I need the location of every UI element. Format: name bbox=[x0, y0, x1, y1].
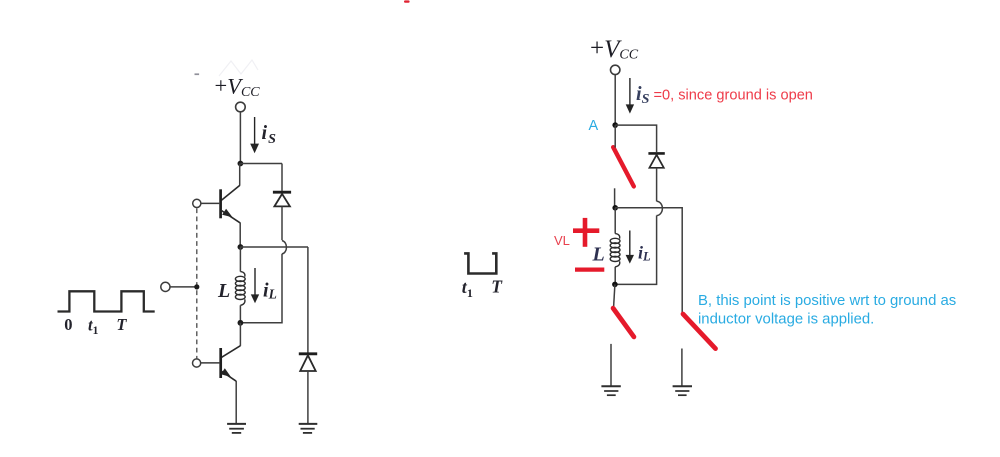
current arrow iL bbox=[251, 268, 259, 303]
node A bbox=[612, 122, 618, 128]
polarity minus bbox=[575, 268, 604, 272]
wire Q1 emitter down bbox=[239, 223, 241, 247]
svg-text:0: 0 bbox=[64, 315, 72, 334]
svg-text:inductor voltage is applied.: inductor voltage is applied. bbox=[698, 311, 874, 327]
wire D1 bottom to node B bbox=[240, 254, 282, 323]
switch S2 open bbox=[613, 308, 634, 337]
terminal input bbox=[161, 282, 170, 291]
terminal +VCC bbox=[236, 102, 246, 112]
current arrow iS bbox=[250, 117, 259, 153]
ground under S2 bbox=[601, 386, 620, 395]
wire node mid to far rail bbox=[615, 208, 682, 314]
wire rail below S1 bbox=[614, 188, 616, 208]
svg-text:L: L bbox=[592, 244, 605, 266]
svg-text:B, this point is positive wrt: B, this point is positive wrt to ground … bbox=[698, 293, 956, 309]
svg-text:iS: iS bbox=[636, 83, 650, 107]
input waveform bbox=[58, 291, 155, 311]
current arrow iS right bbox=[626, 78, 634, 114]
svg-text:t1: t1 bbox=[462, 277, 473, 300]
wire bbox=[239, 112, 241, 164]
switch S3 open bbox=[683, 314, 716, 349]
svg-text:+VCC: +VCC bbox=[215, 73, 261, 100]
inductor L1 bbox=[235, 247, 245, 323]
svg-text:L: L bbox=[217, 280, 230, 302]
svg-text:=0, since ground is open: =0, since ground is open bbox=[654, 88, 813, 104]
wire S2 to ground bbox=[610, 344, 612, 386]
wire hop crossing right bbox=[657, 201, 663, 215]
ground right bbox=[299, 424, 318, 433]
current arrow iL right bbox=[626, 231, 634, 264]
svg-text:+VCC: +VCC bbox=[590, 35, 639, 63]
wire node to D1 bbox=[240, 163, 282, 165]
wire rail above S1 bbox=[614, 125, 616, 147]
polarity plus bbox=[573, 218, 599, 247]
node top bbox=[238, 161, 244, 167]
ground under S3 bbox=[673, 386, 692, 395]
node B bbox=[238, 320, 244, 326]
svg-text:A: A bbox=[589, 118, 599, 134]
wire S3 to ground bbox=[681, 349, 683, 387]
terminal Q1 base bbox=[193, 199, 201, 207]
red speck top bbox=[404, 0, 410, 2]
switch S1 open bbox=[613, 147, 634, 186]
svg-text:T: T bbox=[491, 277, 503, 297]
dashed base line bbox=[196, 208, 198, 358]
svg-text:VL: VL bbox=[554, 233, 570, 248]
node mid right bbox=[612, 205, 618, 211]
terminal +VCC right bbox=[611, 65, 620, 74]
transistor Q1 bbox=[201, 164, 240, 223]
diode D1 bbox=[273, 164, 291, 241]
svg-text:t1: t1 bbox=[88, 316, 99, 338]
wire D3 bottom to node B bbox=[615, 216, 657, 285]
wire bbox=[614, 75, 616, 125]
wire hop crossing bbox=[282, 241, 286, 254]
transistor Q2 bbox=[201, 323, 241, 381]
diode D3 bbox=[648, 153, 664, 201]
svg-text:iL: iL bbox=[263, 280, 277, 302]
wire node A to D3 bbox=[615, 125, 656, 152]
diode D2 bbox=[299, 354, 317, 424]
terminal Q2 base bbox=[193, 359, 201, 367]
wire right rail down bbox=[307, 247, 309, 353]
wire Q2 emitter to ground bbox=[235, 381, 237, 424]
svg-text:T: T bbox=[116, 315, 127, 334]
node B right bbox=[612, 282, 618, 288]
wire rail to S2 bbox=[614, 284, 615, 307]
wire input to dashed node bbox=[170, 286, 195, 288]
node mid bbox=[238, 244, 244, 250]
node on dashed line bbox=[194, 284, 199, 289]
ground left bbox=[227, 424, 246, 433]
svg-text:iS: iS bbox=[262, 122, 277, 147]
inductor L2 bbox=[610, 208, 620, 285]
pulse waveform right bbox=[464, 253, 496, 273]
svg-text:iL: iL bbox=[638, 242, 651, 263]
wire node mid to right rail bbox=[240, 246, 308, 248]
